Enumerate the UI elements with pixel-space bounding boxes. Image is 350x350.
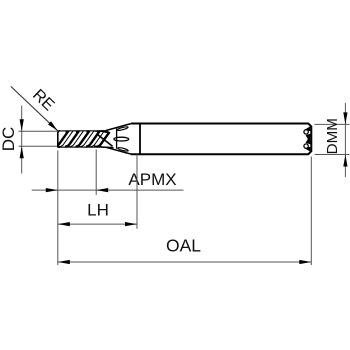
cone vertical line	[116, 129, 118, 149]
DC arrow top	[20, 119, 24, 131]
shank end bottom wedge	[305, 147, 311, 152]
RE arrowhead	[48, 121, 58, 131]
cone top lens	[117, 126, 129, 131]
svg-text:DMM: DMM	[324, 118, 341, 154]
DMM dimension line	[344, 103, 346, 177]
shank end top circle	[304, 130, 308, 134]
cone bottom lens	[117, 147, 128, 152]
top scallop wedges	[65, 130, 113, 133]
svg-text:LH: LH	[87, 200, 109, 219]
bottom edge band	[58, 146, 107, 148]
svg-text:DC: DC	[0, 127, 18, 152]
LH dimension line	[58, 223, 137, 225]
APMX right extension line	[95, 149, 97, 195]
DC bottom extension line	[19, 145, 58, 147]
DC arrow bottom	[20, 146, 24, 158]
cone top edge	[106, 124, 132, 131]
APMX arrow left	[46, 188, 58, 192]
APMX dimension line	[32, 189, 184, 191]
svg-text:OAL: OAL	[166, 236, 201, 256]
APMX left extension line	[57, 151, 59, 266]
RE leader line	[11, 86, 58, 130]
shank end bottom circle	[304, 144, 308, 148]
LH right extension line	[136, 154, 138, 229]
shank end top wedge	[305, 126, 311, 131]
OAL right extension line	[310, 157, 312, 266]
LH arrow left	[58, 222, 70, 226]
flute spiral stripes	[53, 130, 112, 147]
tip face	[58, 131, 60, 147]
DC dimension line	[21, 106, 23, 174]
svg-text:APMX: APMX	[128, 170, 176, 189]
DMM arrow top	[343, 112, 347, 124]
DMM arrow bottom	[343, 155, 347, 167]
runout bottom band	[94, 145, 114, 148]
DMM bottom extension line	[315, 154, 350, 156]
OAL arrow left	[58, 260, 70, 264]
OAL arrow right	[299, 260, 311, 264]
flute runout reversed diagonal	[97, 134, 113, 146]
tip bottom corner wedge	[57, 145, 61, 148]
top edge band	[58, 130, 107, 132]
shank end mid band	[306, 134, 311, 145]
cone bottom edge	[106, 147, 132, 154]
shank junction line	[139, 124, 141, 155]
bottom scallop wedges	[53, 145, 102, 148]
LH arrow right	[125, 222, 137, 226]
cone center ellipse	[114, 137, 129, 141]
DMM top extension line	[315, 123, 350, 125]
DC top extension line	[19, 130, 58, 132]
OAL dimension line	[58, 261, 311, 263]
APMX arrow right	[96, 188, 108, 192]
runout top band	[95, 130, 111, 134]
shank body outline	[131, 124, 311, 155]
